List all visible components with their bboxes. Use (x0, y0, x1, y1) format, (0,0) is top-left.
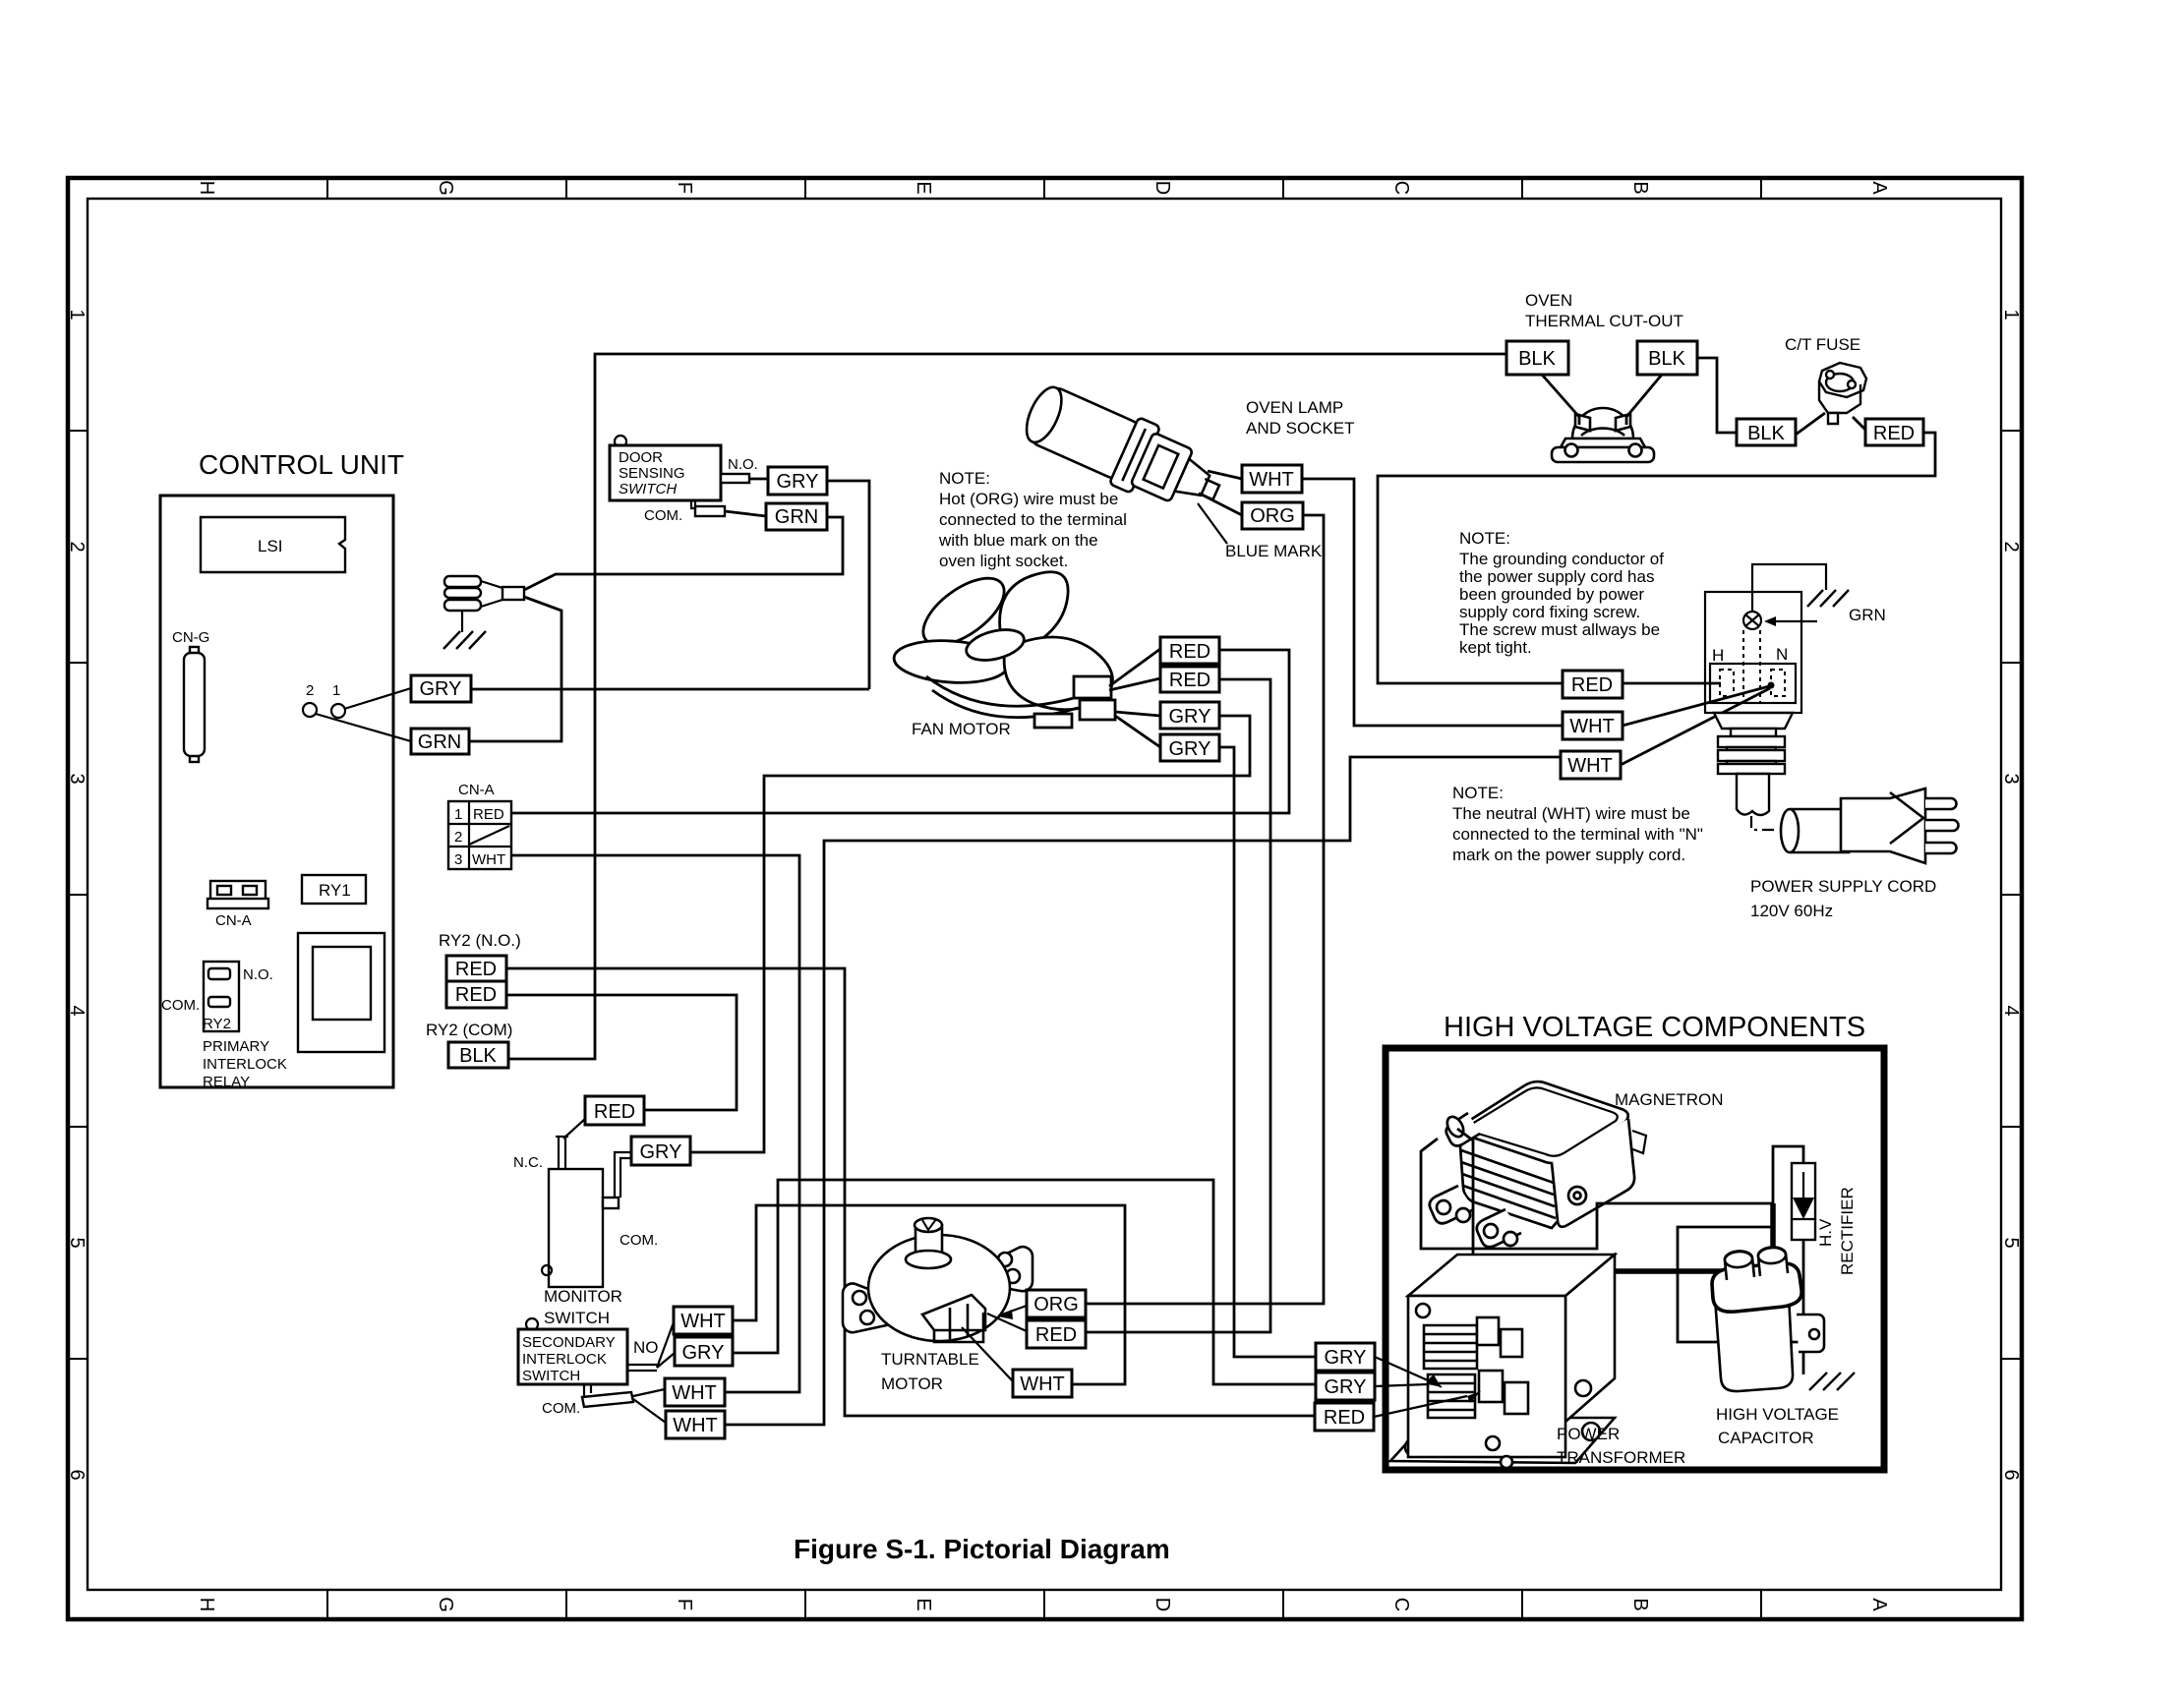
svg-text:oven light socket.: oven light socket. (939, 552, 1068, 570)
svg-text:Figure S-1. Pictorial Diagram: Figure S-1. Pictorial Diagram (794, 1534, 1170, 1564)
svg-text:mark on the power supply co: mark on the power supply cord. (1452, 846, 1685, 864)
svg-text:2: 2 (306, 682, 314, 699)
svg-text:CN-G: CN-G (172, 629, 209, 646)
magnetron MG1 (1430, 1081, 1646, 1247)
wire: fan GRY1 to monitor GRY (690, 716, 1250, 1152)
wire: fan RED2 to turntable RED (1086, 679, 1270, 1332)
wire: fan to GRY1 (1115, 712, 1160, 716)
svg-text:6: 6 (2000, 1469, 2022, 1480)
screw (grounding) (1743, 612, 1761, 629)
wire label ORG (oven lamp) (1242, 502, 1303, 529)
ground (capacitor) (1809, 1373, 1855, 1390)
svg-text:RED: RED (473, 806, 504, 823)
turntable motor M2 (843, 1218, 1033, 1342)
svg-text:ORG: ORG (1250, 505, 1295, 527)
svg-text:TRANSFORMER: TRANSFORMER (1557, 1448, 1685, 1467)
svg-text:TURNTABLE: TURNTABLE (881, 1350, 979, 1369)
svg-text:CN-A: CN-A (215, 912, 252, 929)
wire: fuse to RED (1853, 417, 1865, 430)
wire: cord dash to plug (1751, 816, 1779, 830)
svg-text:B: B (1629, 181, 1651, 194)
svg-text:H: H (196, 181, 217, 195)
svg-text:FAN MOTOR: FAN MOTOR (912, 720, 1011, 738)
svg-text:HIGH VOLTAGE COMPONENTS: HIGH VOLTAGE COMPONENTS (1444, 1012, 1865, 1043)
svg-text:GRY: GRY (1325, 1347, 1367, 1369)
fan motor M1 (893, 565, 1115, 728)
svg-text:GRN: GRN (775, 506, 818, 528)
wire label GRY (fan 2) (1160, 734, 1219, 761)
wire label WHT (oven lamp) (1242, 465, 1302, 493)
switch S1 door sensing switch (610, 436, 758, 524)
svg-text:HIGH VOLTAGE: HIGH VOLTAGE (1716, 1405, 1839, 1424)
note: neutral wire (1452, 784, 1703, 864)
wire: interlock GRY NO to transformer GRY2 (733, 1180, 1316, 1384)
wire label GRY (interlock NO) (675, 1337, 733, 1366)
wire label GRY (monitor) (631, 1137, 690, 1165)
wire: cutout BLK to C/T fuse BLK (1697, 358, 1737, 433)
svg-text:5: 5 (66, 1237, 88, 1248)
svg-text:1: 1 (66, 309, 88, 320)
wire label RED (RY2 NO b) (446, 981, 506, 1008)
svg-text:A: A (1868, 1598, 1890, 1611)
svg-text:GRY: GRY (1169, 706, 1211, 728)
svg-text:CAPACITOR: CAPACITOR (1718, 1429, 1814, 1447)
svg-text:COM.: COM. (644, 507, 682, 524)
wire: BLK to cutout terminal right (1626, 375, 1662, 425)
svg-text:4: 4 (2000, 1005, 2022, 1016)
svg-text:been grounded by power: been grounded by power (1459, 585, 1644, 604)
wire label BLK (RY2 COM) (448, 1042, 508, 1068)
svg-text:SECONDARY: SECONDARY (522, 1334, 616, 1351)
svg-text:C/T FUSE: C/T FUSE (1785, 335, 1860, 354)
svg-text:GRY: GRY (1325, 1376, 1367, 1398)
connector CN-A pin block (448, 782, 511, 869)
control unit U1 (160, 449, 404, 1090)
svg-text:3: 3 (2000, 773, 2022, 784)
wire: rectifier to capacitor ground (1802, 1240, 1805, 1374)
svg-text:CN-A: CN-A (458, 782, 495, 798)
wire: interlock WHT NO to turntable WHT (733, 1205, 1125, 1384)
svg-text:RY2 (COM): RY2 (COM) (426, 1021, 512, 1039)
svg-text:RELAY: RELAY (203, 1074, 250, 1090)
svg-text:INTERLOCK: INTERLOCK (203, 1056, 287, 1073)
svg-text:5: 5 (2000, 1237, 2022, 1248)
relay RY2 primary interlock relay (204, 962, 239, 1031)
svg-text:WHT: WHT (472, 851, 505, 868)
note: hot ORG wire (938, 469, 1127, 570)
wire: GRY1 arrow to primary (1375, 1357, 1428, 1380)
svg-text:RED: RED (1169, 641, 1210, 663)
svg-text:H: H (196, 1598, 217, 1611)
svg-text:RED: RED (1873, 423, 1915, 444)
diode D1 H.V. rectifier (1792, 1163, 1857, 1275)
svg-text:B: B (1629, 1598, 1651, 1610)
wire: screw arrow (1766, 620, 1817, 622)
capacitor C1 high voltage capacitor (1712, 1247, 1824, 1391)
wire: CN-A 3 WHT to interlock WHT (511, 855, 799, 1392)
svg-text:RED: RED (1035, 1324, 1077, 1346)
svg-text:RY2: RY2 (203, 1016, 231, 1032)
svg-text:SWITCH: SWITCH (544, 1309, 610, 1327)
wire: BLK to fuse (1796, 413, 1825, 435)
wire: lug to control GRN (469, 597, 561, 741)
svg-text:BLK: BLK (459, 1045, 497, 1067)
svg-text:OVEN: OVEN (1525, 291, 1572, 310)
wire: WHT2 to N terminal (1621, 688, 1770, 765)
wire: block to ground (1752, 564, 1826, 612)
svg-text:3: 3 (66, 773, 88, 784)
svg-text:RED: RED (594, 1101, 635, 1123)
svg-text:1: 1 (332, 682, 340, 699)
svg-text:E: E (913, 181, 934, 194)
svg-text:The neutral (WHT) wire mus: The neutral (WHT) wire must be (1452, 804, 1690, 823)
wire: CN-A 1 RED to fan RED1 (511, 650, 1289, 813)
svg-text:GRY: GRY (1169, 738, 1211, 760)
wire label GRY (transformer 2) (1316, 1373, 1375, 1400)
svg-text:MOTOR: MOTOR (881, 1374, 943, 1393)
wire label BLK (cutout right) (1637, 341, 1697, 375)
switch S2 monitor switch (513, 1119, 658, 1327)
note: blue mark pointer (1198, 503, 1227, 544)
svg-text:WHT: WHT (1569, 716, 1615, 737)
wire: door GRY to junction (749, 478, 768, 481)
wire label GRY (transformer 1) (1316, 1343, 1375, 1371)
svg-text:INTERLOCK: INTERLOCK (522, 1351, 607, 1368)
svg-text:WHT: WHT (672, 1382, 717, 1404)
wire label RED (transformer) (1315, 1403, 1374, 1431)
svg-text:RY2 (N.O.): RY2 (N.O.) (439, 931, 521, 950)
wire: capacitor right terminal to rectifier node (1770, 1203, 1776, 1263)
svg-text:SENSING: SENSING (619, 465, 685, 482)
wire: magnetron loop to rectifier (1421, 1139, 1803, 1249)
wire: WHT2 to interlock COM WHT2 (725, 757, 1561, 1425)
svg-text:connected to the terminal: connected to the terminal (939, 510, 1127, 529)
svg-text:AND SOCKET: AND SOCKET (1246, 419, 1355, 438)
fuse F1 C/T fuse (1785, 335, 1866, 424)
wire label RED (power cord H) (1563, 671, 1623, 698)
svg-text:the power supply cord has: the power supply cord has (1459, 567, 1654, 586)
svg-text:N.O.: N.O. (728, 456, 758, 473)
svg-text:POWER SUPPLY CORD: POWER SUPPLY CORD (1750, 877, 1936, 896)
switch S3 secondary interlock switch (518, 1318, 675, 1423)
wire label GRN (control unit) (411, 729, 469, 754)
svg-text:OVEN LAMP: OVEN LAMP (1246, 398, 1343, 417)
svg-text:connected to the terminal: connected to the terminal with "N" (1452, 825, 1703, 844)
svg-text:GRY: GRY (420, 678, 462, 700)
cord strain relief (1714, 713, 1793, 815)
svg-text:kept tight.: kept tight. (1459, 638, 1532, 657)
svg-text:N: N (1776, 645, 1788, 664)
svg-text:COM.: COM. (620, 1232, 658, 1249)
wire: ORG arrow to motor (999, 1306, 1027, 1315)
wire label RED (fan 1) (1160, 637, 1219, 664)
svg-text:COM.: COM. (542, 1400, 580, 1417)
wire: RY2 RED a to transformer RED (506, 968, 1315, 1416)
connector CN-A (board) (210, 881, 266, 904)
svg-text:F: F (674, 1599, 695, 1610)
svg-text:SWITCH: SWITCH (522, 1368, 580, 1384)
wire label RED (fuse) (1865, 419, 1923, 445)
svg-text:WHT: WHT (673, 1415, 718, 1436)
svg-text:C: C (1390, 1598, 1412, 1611)
svg-text:RED: RED (1571, 674, 1613, 696)
svg-text:2: 2 (66, 541, 88, 552)
svg-text:3: 3 (454, 851, 462, 868)
svg-text:WHT: WHT (1020, 1374, 1065, 1395)
wire label GRY (door switch N.O.) (768, 467, 827, 495)
wire: oven thermal line (top bus) (508, 354, 1506, 1059)
ground (chassis) (443, 631, 486, 649)
wire label RED (monitor) (585, 1096, 644, 1125)
wire label WHT (power cord 2) (1561, 751, 1621, 779)
wire label WHT (interlock NO) (674, 1307, 733, 1334)
svg-text:DOOR: DOOR (619, 449, 663, 466)
svg-text:Hot (ORG) wire must be: Hot (ORG) wire must be (939, 490, 1118, 508)
svg-text:D: D (1151, 1598, 1173, 1611)
wire label WHT (interlock COM 1) (665, 1378, 725, 1406)
svg-text:RY1: RY1 (319, 881, 351, 900)
power supply cord plug (1781, 789, 1959, 863)
junction (N terminal) (1768, 682, 1775, 689)
svg-text:2: 2 (454, 829, 462, 846)
svg-text:MONITOR: MONITOR (544, 1287, 622, 1306)
svg-text:4: 4 (66, 1005, 88, 1016)
svg-text:NOTE:: NOTE: (1459, 529, 1510, 548)
svg-text:A: A (1868, 181, 1890, 195)
power supply cord terminal block (1705, 564, 1886, 815)
ground lug connector (444, 576, 524, 611)
svg-text:COM.: COM. (161, 997, 200, 1014)
transformer T1 power transformer (1390, 1255, 1615, 1468)
svg-text:WHT: WHT (1249, 469, 1294, 491)
svg-text:BLK: BLK (1518, 348, 1556, 370)
svg-text:GRY: GRY (682, 1342, 725, 1364)
wire label WHT (interlock COM 2) (666, 1411, 725, 1438)
svg-text:N.C.: N.C. (513, 1154, 543, 1171)
svg-text:The grounding conductor of: The grounding conductor of (1459, 550, 1664, 568)
svg-text:120V 60Hz: 120V 60Hz (1750, 902, 1833, 920)
wire label GRN (door switch COM) (766, 503, 827, 530)
svg-text:NO: NO (633, 1338, 659, 1357)
wire: WHT to motor (962, 1327, 1013, 1381)
wire label WHT (power cord 1) (1563, 712, 1623, 739)
wire: fan GRY2 to transformer GRY1 (1219, 747, 1316, 1357)
high voltage enclosure box (1386, 1048, 1884, 1470)
svg-text:LSI: LSI (258, 537, 283, 555)
wire: magnetron filament to transformer (1457, 1129, 1473, 1272)
wire: lamp WHT to power WHT1 (1302, 479, 1563, 726)
svg-text:CONTROL UNIT: CONTROL UNIT (199, 449, 404, 480)
svg-text:G: G (435, 1597, 456, 1612)
svg-text:WHT: WHT (680, 1311, 726, 1332)
relay RY1 (302, 875, 366, 904)
wire label WHT (turntable) (1013, 1370, 1072, 1397)
svg-text:NOTE:: NOTE: (939, 469, 990, 488)
svg-text:N.O.: N.O. (243, 966, 273, 983)
svg-text:WHT: WHT (1567, 755, 1613, 777)
wire: RED to H terminal (1623, 682, 1721, 685)
svg-text:RECTIFIER: RECTIFIER (1838, 1187, 1857, 1275)
wire: fan to RED1 (1109, 649, 1160, 686)
wire: capacitor terminal loop (1678, 1227, 1800, 1342)
svg-text:GRY: GRY (640, 1141, 682, 1163)
wire label GRY (fan 1) (1160, 702, 1219, 729)
svg-text:PRIMARY: PRIMARY (203, 1038, 269, 1055)
wire: transformer secondary to capacitor (1591, 1268, 1733, 1274)
wire: lamp ORG to turntable ORG (1086, 515, 1324, 1304)
svg-text:RED: RED (1324, 1407, 1365, 1429)
svg-text:GRN: GRN (1849, 606, 1886, 624)
wire label ORG (turntable) (1027, 1290, 1086, 1317)
svg-text:GRY: GRY (777, 471, 819, 493)
svg-text:BLUE MARK: BLUE MARK (1225, 542, 1323, 560)
svg-text:GRN: GRN (418, 731, 461, 753)
svg-text:F: F (674, 182, 695, 194)
svg-text:E: E (913, 1598, 934, 1610)
IC LSI (201, 517, 345, 572)
svg-text:RED: RED (455, 984, 497, 1006)
wire: GRY2 arrow to primary (1375, 1384, 1428, 1386)
ground GRN (1807, 590, 1849, 607)
svg-text:C: C (1390, 181, 1412, 195)
svg-text:POWER: POWER (1557, 1425, 1620, 1443)
wire: lug to GRN-door net (524, 517, 843, 590)
svg-text:with blue mark on the: with blue mark on the (938, 531, 1098, 550)
wire: pin1 to GRY (344, 688, 411, 709)
wire: socket to ORG (1202, 495, 1242, 515)
wire label GRY (control unit) (411, 675, 471, 702)
wire: BLK to cutout terminal left (1542, 375, 1579, 425)
wire label RED (RY2 NO a) (446, 956, 506, 981)
svg-text:MAGNETRON: MAGNETRON (1615, 1090, 1724, 1109)
wire: RY2 RED b to monitor RED (506, 995, 737, 1110)
svg-text:G: G (435, 180, 456, 196)
wire: RED arrow to primary (1374, 1396, 1467, 1417)
wire: fan to GRY2 (1115, 716, 1160, 747)
svg-text:The screw must allways be: The screw must allways be (1459, 620, 1660, 639)
svg-text:D: D (1151, 181, 1173, 195)
svg-text:supply cord fixing screw.: supply cord fixing screw. (1459, 603, 1640, 621)
oven thermal cut-out TC1 (1525, 291, 1683, 462)
wire: RED to motor (987, 1314, 1027, 1331)
svg-text:BLK: BLK (1648, 348, 1685, 370)
relay (oven relay) (298, 933, 384, 1052)
svg-text:NOTE:: NOTE: (1452, 784, 1504, 802)
svg-text:H.V: H.V (1816, 1218, 1835, 1247)
svg-text:ORG: ORG (1033, 1294, 1079, 1315)
svg-text:6: 6 (66, 1469, 88, 1480)
svg-text:RED: RED (1169, 670, 1210, 691)
junction (capacitor bracket) (1799, 1324, 1808, 1334)
svg-text:1: 1 (454, 806, 462, 823)
wire label RED (turntable) (1027, 1320, 1086, 1348)
wire label RED (fan 2) (1160, 667, 1219, 692)
svg-text:H: H (1712, 646, 1724, 665)
svg-text:2: 2 (2000, 541, 2022, 552)
oven lamp and socket (1017, 376, 1355, 524)
svg-text:RED: RED (455, 959, 497, 980)
svg-text:THERMAL CUT-OUT: THERMAL CUT-OUT (1525, 312, 1683, 330)
svg-text:1: 1 (2000, 309, 2022, 320)
wire: fuse RED to power RED (1378, 433, 1935, 683)
wire: socket to WHT (1208, 471, 1242, 479)
svg-text:SWITCH: SWITCH (619, 481, 677, 497)
wire: lug to ground (461, 611, 463, 632)
wire: pin2 to GRN (316, 714, 411, 741)
note: grounding conductor (1459, 529, 1664, 657)
wire label BLK (cutout left) (1506, 341, 1568, 375)
wire: fan to RED2 (1109, 678, 1160, 690)
wire: WHT1 to N terminal (1623, 685, 1773, 726)
wire label BLK (fuse) (1737, 419, 1796, 445)
svg-text:BLK: BLK (1747, 423, 1785, 444)
wire: control GRY bus to door GRY (471, 688, 869, 691)
